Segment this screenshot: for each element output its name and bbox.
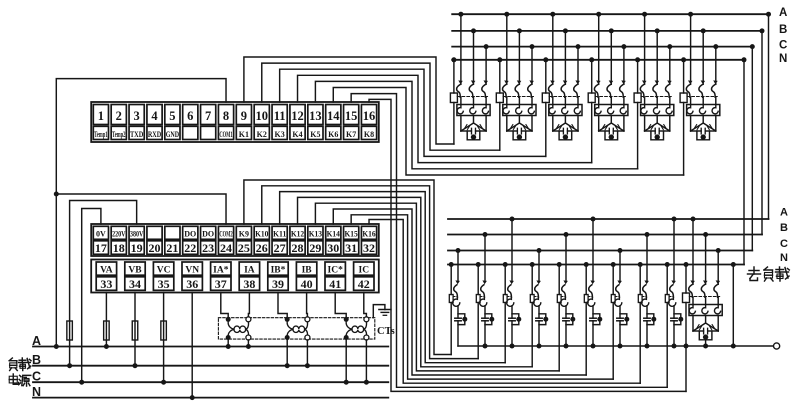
svg-text:K4: K4 bbox=[292, 130, 302, 139]
svg-text:CTs: CTs bbox=[377, 326, 395, 337]
ground symbol (CT secondary earth) bbox=[373, 305, 385, 318]
svg-text:16: 16 bbox=[363, 109, 376, 123]
terminal 24 (COM2) bbox=[218, 226, 233, 239]
svg-text:24: 24 bbox=[220, 241, 232, 255]
contactor coil bottom branch 5 bbox=[557, 295, 561, 303]
wire blade to contactor bank C3 phase C bbox=[577, 97, 579, 104]
svg-text:VN: VN bbox=[185, 265, 199, 275]
wire COM1 (terminal 8) to bus A bbox=[56, 79, 226, 347]
svg-text:N: N bbox=[779, 53, 787, 65]
bus A2 (to load) bbox=[448, 218, 769, 220]
junction bank C5 phase C on bus bbox=[667, 44, 672, 49]
wire phase A drop of bottom branch 3 bbox=[511, 219, 513, 282]
wire contactor pole bottom bank C16 bbox=[705, 316, 707, 324]
wire 380V (terminal 19) to fuse FU1 bbox=[70, 201, 137, 366]
junction coil wire bottom branch 5 on bus N2 bbox=[557, 262, 562, 267]
contactor coil KM1 bbox=[450, 93, 457, 103]
wire K8 (terminal 16) to bottom branch 10 coil bbox=[369, 99, 686, 391]
wire coil KM1 to K1 staircase bbox=[453, 103, 455, 145]
discharge bracket of bank C4 bbox=[605, 131, 618, 140]
bus A (load power source) bbox=[33, 346, 388, 348]
CT1 (IA) primary terminal bbox=[246, 335, 251, 340]
svg-text:IB*: IB* bbox=[271, 265, 286, 275]
junction bank C2 phase C on bus bbox=[530, 44, 535, 49]
wire phase A drop of bank C1 bbox=[460, 14, 462, 84]
breaker blade bank C3 phase A bbox=[549, 85, 553, 97]
junction bank C3 phase C on bus bbox=[576, 44, 581, 49]
contactor pole coil of bank C5 bbox=[653, 106, 659, 114]
breaker blade bank C4 phase A bbox=[594, 85, 598, 97]
svg-text:34: 34 bbox=[129, 277, 141, 291]
terminal 14 (K6) bbox=[326, 105, 341, 125]
svg-text:0V: 0V bbox=[96, 229, 106, 238]
svg-text:39: 39 bbox=[272, 277, 284, 291]
bus C2 (to load) bbox=[448, 250, 752, 252]
breaker blade bank C4 phase B bbox=[607, 85, 611, 97]
wire capacitor C12 to neutral rail bbox=[592, 321, 594, 346]
wire CT2 (IB) secondary to IB terminal bbox=[306, 293, 309, 318]
wire phase B drop of bank C5 bbox=[656, 31, 658, 84]
contactor coil bottom branch 6 bbox=[584, 295, 588, 303]
capacitor bank bank C6 delta V bbox=[691, 123, 716, 131]
svg-text:220V: 220V bbox=[112, 229, 126, 238]
outgoing terminal (open circle) of neutral rail bbox=[774, 343, 780, 349]
wire phase B drop of bank C4 bbox=[610, 31, 612, 84]
wire blade to contactor bank C4 phase C bbox=[623, 97, 625, 104]
breaker contact mark bank C3 phase C bbox=[575, 80, 580, 84]
wire blade to contactor bank C3 phase B bbox=[564, 97, 566, 104]
bus N1 (branch supply) bbox=[452, 59, 744, 61]
junction V wire on bus A bbox=[104, 344, 109, 349]
contactor pole coil bottom branch 8 bbox=[642, 297, 649, 306]
svg-text:K2: K2 bbox=[257, 130, 267, 139]
junction on bus C1 bbox=[750, 44, 755, 49]
terminal 4 (RXD) bbox=[147, 105, 162, 125]
terminal 15 (K7) bbox=[344, 105, 359, 125]
wire coil KM4 to K4 staircase bbox=[591, 103, 593, 163]
wire coil bottom branch 1 to K staircase bbox=[450, 303, 452, 355]
wire phase C drop of bank C4 bbox=[623, 47, 625, 85]
contactor pole coil of bank C2 bbox=[503, 106, 509, 114]
wire blade to contactor bank C2 phase B bbox=[518, 97, 520, 104]
junction COM wire on bus A bbox=[54, 344, 59, 349]
breaker contact mark bank C16 phase B bbox=[703, 280, 708, 284]
breaker blade bank C1 phase A bbox=[457, 85, 461, 97]
wire phase B drop of bank C16 bbox=[705, 235, 707, 285]
terminal 37 (IA*) bbox=[211, 262, 231, 275]
wire blade to contactor bank C6 phase C bbox=[715, 97, 717, 104]
wire to capacitor bottom branch 2 bbox=[484, 306, 486, 318]
capacitor plates of bank C16 bbox=[703, 328, 705, 334]
svg-text:27: 27 bbox=[274, 241, 286, 255]
mech linkage (dashed) bottom branch 7 bbox=[615, 296, 620, 298]
capacitor C14 plates bbox=[644, 317, 650, 319]
contactor bank C16 box bbox=[689, 305, 722, 316]
wire contactor pole bottom bank C4 bbox=[598, 116, 600, 132]
svg-text:K13: K13 bbox=[309, 229, 322, 238]
junction CT1 (IA) primary return on bus A bbox=[246, 344, 251, 349]
terminal 20 (spare) bbox=[147, 226, 162, 239]
contactor pole coil of bank C2 bbox=[528, 106, 534, 114]
wire N2 to coil of bottom branch 3 bbox=[504, 265, 506, 295]
wire contactor pole bottom bank C3 bbox=[552, 116, 554, 132]
svg-text:K1: K1 bbox=[239, 130, 249, 139]
junction bottom branch 1 on bus C2 bbox=[456, 248, 461, 253]
wire blade to contactor bank C1 phase A bbox=[460, 97, 462, 104]
wire blade to contactor bank C2 phase A bbox=[506, 97, 508, 104]
svg-text:7: 7 bbox=[205, 109, 211, 123]
breaker blade bank C16 phase C bbox=[714, 285, 718, 297]
wire CT2 (IB) primary to bus B bbox=[286, 340, 288, 366]
wire IC* terminal to CT3 (IC) marked secondary bbox=[335, 293, 346, 318]
contactor coil KM4 bbox=[588, 93, 595, 103]
contactor coil KM2 bbox=[496, 93, 503, 103]
junction coil KM16 wire on neutral rail bbox=[684, 344, 689, 349]
junction coil KM4 on bus N1 bbox=[589, 57, 594, 62]
CT3 (IC) crossed windings bbox=[346, 322, 366, 329]
junction V wire on bus B bbox=[133, 363, 138, 368]
terminal 16 (K8) bbox=[361, 105, 376, 125]
wire phase A drop of bank C5 bbox=[644, 14, 646, 84]
fuse tick marks on bank C5 bbox=[651, 126, 653, 129]
fuse tick marks on bank C3 bbox=[569, 126, 571, 129]
wire phase A drop of bank C4 bbox=[598, 14, 600, 84]
star point terminal of bank C6 bbox=[701, 134, 706, 139]
discharge lamp terminal of capacitor C11 bbox=[570, 317, 575, 322]
wire CT1 (IA) secondary to IA terminal bbox=[248, 293, 249, 318]
fuse tick marks on bank C3 bbox=[559, 126, 561, 129]
junction bank C16 phase C on bus bbox=[716, 248, 721, 253]
contactor pole coil of bank C3 bbox=[574, 106, 580, 114]
mechanical linkage (dashed) of bank C4 bbox=[595, 96, 625, 98]
wire K10 (terminal 26) to bottom branch 2 coil bbox=[262, 186, 478, 359]
wire capacitor C10 to neutral rail bbox=[538, 321, 540, 346]
label: load-power caption line 2 (Chinese) bbox=[9, 374, 18, 384]
capacitor plates of bank C6 bbox=[700, 128, 702, 134]
fuse tick marks on bank C1 bbox=[478, 126, 480, 129]
wire N2 to coil of bottom branch 4 bbox=[531, 265, 533, 295]
contactor pole coil bottom branch 6 bbox=[588, 297, 595, 306]
svg-text:K11: K11 bbox=[273, 229, 286, 238]
wire coil KM5 to K5 staircase bbox=[637, 103, 639, 169]
capacitor bank bank C3 delta V bbox=[553, 123, 578, 131]
wire CT3 (IC) primary return to bus C bbox=[365, 340, 367, 382]
svg-text:IA*: IA* bbox=[213, 265, 229, 275]
contactor coil KM16 bbox=[683, 293, 690, 303]
breaker blade bank C4 phase C bbox=[620, 85, 624, 97]
wire phase C drop of bank C3 bbox=[577, 47, 579, 85]
svg-text:380V: 380V bbox=[130, 229, 144, 238]
contactor coil KM3 bbox=[542, 93, 549, 103]
svg-text:26: 26 bbox=[256, 241, 268, 255]
wire K9 (terminal 25) to bottom branch 1 coil bbox=[244, 180, 451, 355]
svg-text:B: B bbox=[780, 222, 788, 234]
svg-text:A: A bbox=[32, 334, 41, 348]
discharge lamp terminal of capacitor C10 bbox=[543, 317, 548, 322]
breaker contact mark bottom branch 8 bbox=[644, 280, 649, 284]
wire phase C drop of bank C1 bbox=[485, 47, 487, 85]
contactor coil bottom branch 8 bbox=[638, 295, 642, 303]
wire VN (terminal 36) to bus N bbox=[191, 293, 193, 398]
svg-text:IB: IB bbox=[302, 265, 313, 275]
svg-text:B: B bbox=[779, 24, 787, 36]
wire to capacitor bottom branch 1 bbox=[457, 306, 459, 318]
terminal 29 (K13) bbox=[308, 226, 323, 239]
contactor bank C3 box bbox=[549, 105, 582, 116]
wire blade to contactor bank C5 phase B bbox=[656, 97, 658, 104]
junction bottom branch 7 on bus C2 bbox=[618, 248, 623, 253]
fuse FU1 bbox=[67, 321, 73, 340]
contactor coil bottom branch 2 bbox=[476, 295, 480, 303]
breaker contact mark bank C16 phase A bbox=[690, 280, 695, 284]
breaker blade bottom branch 5 bbox=[562, 285, 566, 298]
wire capacitor C11 to neutral rail bbox=[565, 321, 567, 346]
wire bus C1 to bus C2 bbox=[751, 47, 753, 251]
wire blade to contactor bank C6 phase A bbox=[690, 97, 692, 104]
star point terminal of bank C5 bbox=[655, 134, 660, 139]
breaker contact mark bank C6 phase C bbox=[713, 80, 718, 84]
svg-text:VC: VC bbox=[157, 265, 171, 275]
terminal 32 (K16) bbox=[361, 226, 376, 239]
terminal 21 (spare) bbox=[165, 226, 180, 239]
capacitor bank bank C2 base bbox=[507, 130, 518, 132]
mech linkage (dashed) bottom branch 3 bbox=[507, 296, 512, 298]
CT2 (IB) primary terminal bbox=[305, 335, 310, 340]
fuse tick marks on bank C2 bbox=[523, 126, 525, 129]
bus C (load power source) bbox=[33, 381, 388, 383]
discharge bracket of bank C16 bbox=[699, 331, 712, 340]
junction capacitor C11 on neutral rail bbox=[564, 344, 569, 349]
svg-text:DO: DO bbox=[202, 229, 214, 238]
svg-text:K3: K3 bbox=[275, 130, 285, 139]
junction VN on bus N bbox=[190, 395, 195, 400]
wire phase C drop of bottom branch 7 bbox=[619, 251, 621, 282]
svg-text:35: 35 bbox=[158, 277, 170, 291]
svg-text:9: 9 bbox=[241, 109, 247, 123]
breaker contact mark bottom branch 5 bbox=[563, 280, 568, 284]
wire blade to contactor bank C3 phase A bbox=[552, 97, 554, 104]
wire N1 to coil KM4 bbox=[591, 60, 593, 93]
wire phase B drop of bank C2 bbox=[518, 31, 520, 84]
terminal 12 (K4) bbox=[290, 105, 305, 125]
breaker blade bank C16 phase A bbox=[689, 285, 693, 297]
breaker blade bank C16 phase B bbox=[701, 285, 705, 297]
wire coil bottom branch 4 to K staircase bbox=[531, 303, 533, 367]
wire contactor pole bottom bank C2 bbox=[506, 116, 508, 132]
wire phase B drop of bank C1 bbox=[473, 31, 475, 84]
svg-text:29: 29 bbox=[309, 241, 321, 255]
svg-text:15: 15 bbox=[345, 109, 358, 123]
discharge loop of capacitor C11 bbox=[566, 314, 573, 325]
capacitor C10 plates bbox=[536, 317, 542, 319]
svg-text:1: 1 bbox=[98, 109, 104, 123]
breaker contact mark bank C6 phase A bbox=[688, 80, 693, 84]
junction bank C1 phase C on bus bbox=[484, 44, 489, 49]
junction bank C4 phase A on bus bbox=[596, 12, 601, 17]
junction bottom branch 8 on bus B2 bbox=[645, 232, 650, 237]
svg-text:DO: DO bbox=[184, 229, 196, 238]
terminal strip X3 outer box (terminals 33-42) bbox=[91, 260, 379, 293]
wire CT2 (IB) primary return to bus B bbox=[306, 340, 308, 366]
capacitor plates of bank C1 bbox=[471, 128, 473, 134]
wire contactor pole bottom bank C5 bbox=[644, 116, 646, 132]
wire to capacitor bottom branch 9 bbox=[673, 306, 675, 318]
svg-text:IC*: IC* bbox=[328, 265, 344, 275]
svg-text:11: 11 bbox=[274, 109, 286, 123]
contactor bank C1 box bbox=[457, 105, 490, 116]
wire phase A drop of bank C16 bbox=[692, 219, 694, 284]
contactor pole coil of bank C4 bbox=[608, 106, 614, 114]
capacitor bank bank C5 base bbox=[645, 130, 656, 132]
discharge loop of capacitor C14 bbox=[647, 314, 654, 325]
wire blade to contactor bank C6 phase B bbox=[702, 97, 704, 104]
junction bank C16 on neutral rail bbox=[703, 344, 708, 349]
wire phase C drop of bank C16 bbox=[717, 251, 719, 285]
contactor coil bottom branch 9 bbox=[665, 295, 669, 303]
svg-text:K8: K8 bbox=[364, 130, 374, 139]
fuse FU2 bbox=[104, 321, 110, 340]
breaker blade bank C1 phase B bbox=[469, 85, 473, 97]
svg-text:17: 17 bbox=[95, 241, 107, 255]
contactor pole coil bottom branch 3 bbox=[507, 297, 514, 306]
breaker blade bottom branch 9 bbox=[670, 285, 674, 298]
wire blade to contactor bank C5 phase A bbox=[644, 97, 646, 104]
junction on bus N1 bbox=[742, 57, 747, 62]
wire K14 (terminal 30) to bottom branch 6 coil bbox=[333, 209, 586, 375]
junction coil KM3 on bus N1 bbox=[543, 57, 548, 62]
contactor pole coil bottom branch 4 bbox=[534, 297, 541, 306]
wire N2 to coil of bottom branch 9 bbox=[666, 265, 668, 295]
bus B2 (to load) bbox=[448, 234, 762, 236]
breaker blade bottom branch 4 bbox=[535, 285, 539, 298]
svg-text:23: 23 bbox=[202, 241, 214, 255]
junction coil KM16 on bus N2 bbox=[684, 262, 689, 267]
breaker contact mark bank C4 phase B bbox=[609, 80, 614, 84]
wire contactor pole bottom bank C6 bbox=[702, 116, 704, 124]
svg-text:GND: GND bbox=[166, 130, 180, 139]
breaker contact mark bank C6 phase B bbox=[701, 80, 706, 84]
contactor coil bottom branch 4 bbox=[530, 295, 534, 303]
wire phase B drop of bottom branch 2 bbox=[484, 235, 486, 282]
junction capacitor C8 on neutral rail bbox=[483, 344, 488, 349]
wire blade to contactor bank C1 phase C bbox=[485, 97, 487, 104]
svg-text:Temp1: Temp1 bbox=[94, 130, 107, 139]
breaker contact mark bank C1 phase C bbox=[484, 80, 489, 84]
wire N1 to coil KM1 bbox=[453, 60, 455, 93]
svg-text:TXD: TXD bbox=[130, 130, 144, 139]
capacitor C11 plates bbox=[563, 317, 569, 319]
wire capacitor C13 to neutral rail bbox=[619, 321, 621, 346]
breaker blade bank C5 phase A bbox=[640, 85, 644, 97]
wire N2 to coil of bottom branch 8 bbox=[639, 265, 641, 295]
CT1 (IA) secondary terminal bbox=[246, 317, 251, 322]
breaker blade bank C2 phase C bbox=[528, 85, 532, 97]
breaker contact mark bank C5 phase B bbox=[655, 80, 660, 84]
terminal 40 (IB) bbox=[296, 262, 316, 275]
wire K12 (terminal 28) to bottom branch 4 coil bbox=[298, 197, 533, 366]
wire K4 (terminal 12) to contactor coil KM4 bbox=[298, 75, 592, 162]
svg-text:28: 28 bbox=[292, 241, 304, 255]
discharge bracket of bank C1 bbox=[467, 131, 480, 140]
svg-text:33: 33 bbox=[100, 277, 112, 291]
capacitor bank bank C1 base bbox=[461, 130, 472, 132]
junction bank C3 phase A on bus bbox=[550, 12, 555, 17]
junction V wire on bus C bbox=[161, 380, 166, 385]
fuse tick marks on bank C4 bbox=[615, 126, 617, 129]
svg-text:VB: VB bbox=[128, 265, 142, 275]
wire coil bottom branch 6 to K staircase bbox=[585, 303, 587, 376]
breaker contact mark bottom branch 6 bbox=[590, 280, 595, 284]
contactor bank C2 box bbox=[503, 105, 536, 116]
junction CT3 (IC) primary return on bus C bbox=[364, 380, 369, 385]
breaker blade bank C2 phase B bbox=[515, 85, 519, 97]
wire phase A drop of bottom branch 6 bbox=[592, 219, 594, 282]
wire IB* terminal to CT2 (IB) marked secondary bbox=[278, 293, 287, 318]
breaker contact mark bank C3 phase B bbox=[563, 80, 568, 84]
junction 0V wire on bus C bbox=[79, 380, 84, 385]
svg-text:13: 13 bbox=[309, 109, 322, 123]
wire K3 (terminal 11) to contactor coil KM3 bbox=[280, 69, 546, 156]
terminal 28 (K12) bbox=[290, 226, 305, 239]
wire blade to contactor bank C2 phase C bbox=[531, 97, 533, 104]
wire phase C drop of bottom branch 1 bbox=[457, 251, 459, 282]
junction on bus A1 bbox=[766, 12, 771, 17]
terminal strip X2 outer box (terminals 17-32) bbox=[91, 224, 379, 256]
wire contactor pole bottom bank C3 bbox=[564, 116, 566, 124]
junction coil KM6 on bus N1 bbox=[681, 57, 686, 62]
discharge lamp terminal of capacitor C7 bbox=[462, 317, 467, 322]
breaker blade bank C3 phase B bbox=[561, 85, 565, 97]
wire contactor pole bottom bank C2 bbox=[531, 116, 533, 132]
fuse tick marks on bank C5 bbox=[661, 126, 663, 129]
svg-text:38: 38 bbox=[243, 277, 255, 291]
svg-text:5: 5 bbox=[169, 109, 175, 123]
junction coil wire bottom branch 3 on bus N2 bbox=[503, 262, 508, 267]
CT2 (IB) primary terminal (marked) bbox=[285, 335, 290, 340]
svg-text:C: C bbox=[779, 40, 787, 52]
junction coil wire bottom branch 9 on bus N2 bbox=[665, 262, 670, 267]
wire phase A drop of bank C6 bbox=[690, 14, 692, 84]
svg-text:VA: VA bbox=[100, 265, 113, 275]
junction bank C16 phase A on bus bbox=[691, 217, 696, 222]
wire N1 to coil KM3 bbox=[545, 60, 547, 93]
capacitor C13 plates bbox=[617, 317, 623, 319]
breaker blade bank C2 phase A bbox=[503, 85, 507, 97]
svg-text:IA: IA bbox=[244, 265, 255, 275]
contactor coil bottom branch 7 bbox=[611, 295, 615, 303]
wire K2 (terminal 10) to contactor coil KM2 bbox=[262, 63, 500, 150]
terminal 13 (K5) bbox=[308, 105, 323, 125]
capacitor bank bank C3 base bbox=[553, 130, 564, 132]
breaker contact mark bottom branch 3 bbox=[509, 280, 514, 284]
contactor pole coil of bank C16 bbox=[714, 306, 720, 314]
junction bank C2 phase B on bus bbox=[517, 28, 522, 33]
wire coil bottom branch 8 to K staircase bbox=[639, 303, 641, 384]
svg-text:20: 20 bbox=[149, 241, 161, 255]
mech linkage (dashed) bottom branch 9 bbox=[669, 296, 674, 298]
junction CT1 (IA) primary on bus A bbox=[226, 344, 231, 349]
wire CT1 (IA) primary to bus A bbox=[227, 340, 229, 347]
junction coil wire bottom branch 4 on bus N2 bbox=[530, 262, 535, 267]
CT2 (IB) polarity terminal (marked) bbox=[285, 317, 290, 322]
wire bus N2 to neutral rail bbox=[732, 265, 734, 347]
capacitor plates of bank C5 bbox=[654, 128, 656, 134]
mechanical linkage (dashed) of bank C5 bbox=[641, 96, 671, 98]
wire phase B drop of bottom branch 8 bbox=[646, 235, 648, 282]
wire CT3 (IC) secondary to IC terminal bbox=[364, 293, 367, 318]
capacitor C8 plates bbox=[482, 317, 488, 319]
svg-text:N: N bbox=[32, 385, 41, 399]
